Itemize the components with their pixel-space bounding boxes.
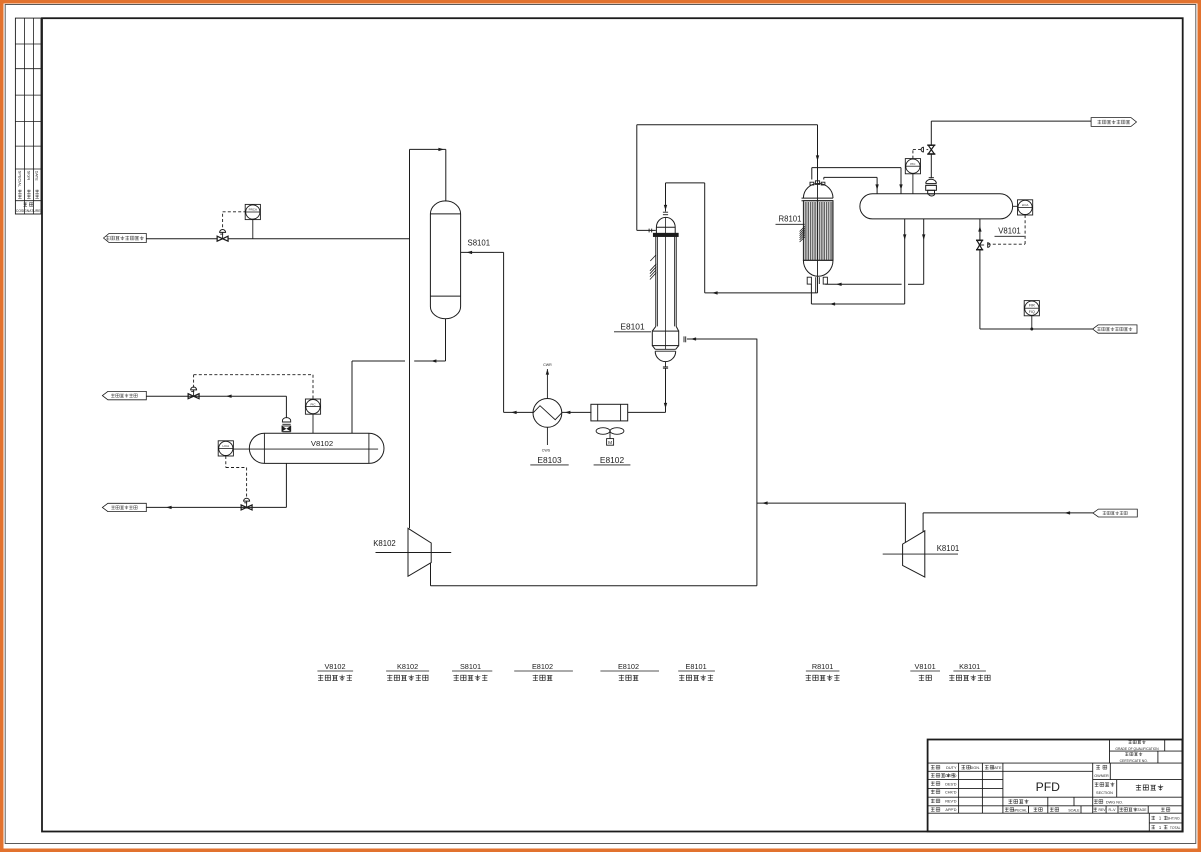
svg-text:E8101: E8101 xyxy=(686,662,707,671)
arrow into S8101 side xyxy=(467,251,473,254)
svg-text:SIGN: SIGN xyxy=(26,171,31,181)
wire: CWR line up xyxy=(546,369,548,399)
instrument PRCA xyxy=(245,204,260,219)
wire: PRCA tap to pipe xyxy=(252,220,254,239)
svg-text:DEP'D: DEP'D xyxy=(945,774,957,778)
R8101 bottom dome xyxy=(803,260,833,276)
specialty / scale row xyxy=(1005,807,1014,811)
wire: effluent to E8101 xyxy=(705,292,818,294)
wire: bottoms line xyxy=(146,506,286,508)
svg-text:SPECIAL: SPECIAL xyxy=(17,171,22,188)
svg-text:SPECIAL: SPECIAL xyxy=(1013,808,1027,812)
E8101 bottom dome xyxy=(655,351,676,361)
svg-text:REV'D: REV'D xyxy=(945,800,957,804)
R8101 top center nozzle xyxy=(815,181,819,185)
E8101 bottom nozzle tick 1 xyxy=(663,366,668,368)
E8101 bottom nozzle tick 2 xyxy=(663,367,668,369)
svg-text:M: M xyxy=(608,440,612,446)
svg-text:DATE: DATE xyxy=(35,171,40,181)
V8101 level instrument LICA xyxy=(1013,205,1018,207)
R8101 bottom center stub xyxy=(815,277,817,293)
wire: E8101 bottom outlet down xyxy=(665,368,667,412)
R8101 top dome xyxy=(803,184,833,199)
svg-text:K8102: K8102 xyxy=(373,539,396,548)
K8102 shaft line xyxy=(376,552,452,554)
col header SIGN xyxy=(26,171,31,181)
signal: LICA to BFW valve xyxy=(1024,215,1026,244)
wire: R8101 effluent down xyxy=(817,277,819,293)
signal: to PRCA (horizontal) xyxy=(223,211,246,213)
motor box M xyxy=(607,439,614,446)
steam valve diaphragm pointer xyxy=(927,149,929,151)
wire: riser A down into V8101 xyxy=(900,168,902,194)
svg-text:DES'D: DES'D xyxy=(945,782,957,786)
cosignature row xyxy=(23,202,33,206)
K8101 shaft line xyxy=(883,553,958,555)
wire: compressor discharge to E8101 shell inlet xyxy=(687,338,757,340)
svg-text:R8101: R8101 xyxy=(812,662,834,671)
wire: hot inlet drop into E8101 top xyxy=(665,183,667,212)
row checked xyxy=(931,790,940,794)
E8101 top dome xyxy=(656,217,675,233)
wire: E8102 to E8103 xyxy=(562,411,592,413)
row discipline chief xyxy=(931,773,955,777)
heat exchanger E8103 (water cooler) xyxy=(533,399,562,428)
wire: riser B down into V8101 xyxy=(876,177,878,193)
wire: S8101 bottoms down xyxy=(445,319,447,361)
wire: riser B from R8101 top-right nozzle xyxy=(823,177,825,179)
svg-text:PFD: PFD xyxy=(1036,780,1061,794)
flow tag: steam to steam header (out) xyxy=(1091,118,1136,127)
E8101 center tube line xyxy=(665,217,667,349)
R8101 flange line 2 xyxy=(802,200,834,202)
E8101 top nozzle flange tick 2 xyxy=(663,214,668,216)
left co-signature table xyxy=(15,18,41,214)
signal: PIC to steam valve xyxy=(913,149,921,151)
svg-text:K8101: K8101 xyxy=(959,662,980,671)
svg-text:LICA: LICA xyxy=(222,444,229,448)
R8101 top nozzle left xyxy=(810,182,814,185)
wire: BFW horizontal xyxy=(980,328,1093,330)
wire: FIR tap xyxy=(1031,316,1033,329)
E8101 bottom collar xyxy=(652,326,678,331)
wire: K8102 discharge down xyxy=(430,563,432,586)
svg-text:PIC: PIC xyxy=(910,162,916,166)
row reviewed xyxy=(931,799,940,803)
BFW level control valve (vertical) xyxy=(976,239,983,241)
svg-text:CWS: CWS xyxy=(542,449,551,453)
svg-text:LICA: LICA xyxy=(1022,203,1029,207)
signal: LICA down xyxy=(225,456,227,468)
wire: pipe valve to recycle riser xyxy=(228,238,410,240)
svg-text:E8103: E8103 xyxy=(537,455,562,465)
svg-text:STAGE: STAGE xyxy=(1135,808,1147,812)
compressor K8101 (fresh gas) xyxy=(903,531,925,577)
rev row xyxy=(1093,807,1097,811)
arrow CWR up xyxy=(546,369,549,375)
svg-text:DUTY: DUTY xyxy=(946,766,957,770)
E8101 upper-left shell nozzle xyxy=(648,229,650,233)
svg-text:SHT.NO.: SHT.NO. xyxy=(1167,817,1180,821)
wire: K8101 discharge to junction xyxy=(757,502,906,504)
svg-text:TOTAL: TOTAL xyxy=(1170,826,1181,830)
wire: riser to reactor feed header xyxy=(636,125,638,231)
svg-text:SECTION: SECTION xyxy=(1096,791,1113,795)
svg-text:COSIGNATURE: COSIGNATURE xyxy=(16,209,41,213)
R8101 bottom nozzle right xyxy=(823,277,827,284)
signal: valve to PIC xyxy=(193,375,195,388)
wire: vertical from E8103 xyxy=(503,252,505,412)
col header SPECIAL xyxy=(17,171,22,188)
wire: K8101 discharge up xyxy=(904,503,906,542)
wire: BFW into V8101 xyxy=(979,219,981,240)
wire: S8101 bottoms horizontal (right of riser gap) xyxy=(414,360,445,362)
svg-text:V8102: V8102 xyxy=(311,439,333,448)
wire: CWS line down xyxy=(546,427,548,445)
steam control valve (vertical) xyxy=(927,144,935,146)
certificate no xyxy=(1125,752,1142,756)
col header DATE xyxy=(35,171,40,181)
svg-text:R–V: R–V xyxy=(1109,808,1117,812)
wire: BFW riser xyxy=(979,250,981,329)
svg-text:REV: REV xyxy=(1099,808,1107,812)
wire: PIC tap to vessel xyxy=(912,174,914,194)
title block xyxy=(928,740,1183,832)
svg-text:CHK'D: CHK'D xyxy=(945,791,957,795)
R8101 bottom nozzle left xyxy=(807,277,811,284)
wire: steam line to grid tag xyxy=(930,121,932,145)
sheet no rows xyxy=(1151,816,1155,820)
flow tag: purge gas to fuel header xyxy=(104,234,147,243)
wire: S8101 bottoms horizontal (left of riser gap) xyxy=(352,360,405,362)
svg-text:DATE: DATE xyxy=(992,766,1002,770)
wire: V8102 bottom outlet xyxy=(285,463,287,507)
svg-text:GRADE OF QUALIFICATION: GRADE OF QUALIFICATION xyxy=(1115,747,1159,751)
svg-text:DWG NO.: DWG NO. xyxy=(1106,800,1123,804)
svg-text:V8102: V8102 xyxy=(324,662,345,671)
wire: reactor feed top header xyxy=(637,124,818,126)
arrow down into R8101 xyxy=(816,155,819,161)
svg-text:CWR: CWR xyxy=(543,363,552,367)
arrow riser A into V8101 xyxy=(899,184,902,190)
svg-text:CERTIFICATE NO.: CERTIFICATE NO. xyxy=(1120,759,1148,763)
project name value xyxy=(1136,785,1163,791)
wire: E8103 to riser corner xyxy=(504,411,533,413)
signal: valve to PRCA (vertical) xyxy=(222,212,224,227)
arrow effluent leftward xyxy=(712,291,718,294)
E8101 insulation hatch xyxy=(650,255,656,261)
wire: E8103 outlet into S8101 xyxy=(461,251,504,253)
E8103 coil zigzag xyxy=(533,406,562,420)
R8101 top nozzle right xyxy=(821,182,825,185)
wire: flash gas line xyxy=(146,395,286,397)
wire: riser A horizontal xyxy=(812,167,901,169)
wire: feed pipe from tag to valve PV-A xyxy=(146,238,217,240)
arrow riser B into V8101 xyxy=(875,184,878,190)
flow tag: fresh gas from battery limit xyxy=(1093,509,1137,517)
wire: fresh gas line xyxy=(923,512,1093,514)
arrow at E8103 outlet xyxy=(511,411,517,414)
E8101 top flange band xyxy=(653,233,678,236)
svg-text:E8102: E8102 xyxy=(618,662,639,671)
svg-text:PIC: PIC xyxy=(310,402,316,406)
arrow into E8101 shell xyxy=(691,337,697,340)
compressor K8102 (recycle gas) xyxy=(408,528,431,576)
E8101 shell body xyxy=(655,237,657,327)
wire: drop into K8101 inlet xyxy=(922,513,924,532)
arrow discharge leftward xyxy=(762,501,768,504)
svg-text:R8101: R8101 xyxy=(779,215,802,224)
wire: effluent top jog to E8101 xyxy=(666,182,705,184)
arrow fresh gas leftward xyxy=(1065,511,1071,514)
svg-text:S8101: S8101 xyxy=(468,238,491,247)
svg-text:E8101: E8101 xyxy=(620,321,645,331)
svg-text:E8102: E8102 xyxy=(532,662,553,671)
vessel S8101 (methanol separator) xyxy=(430,201,460,319)
E8101 lower-right shell nozzle xyxy=(683,336,685,342)
svg-text:V8101: V8101 xyxy=(915,662,936,671)
V8102 vent/relief fitting xyxy=(282,418,290,422)
wire: riser A from R8101 top-left nozzle xyxy=(811,168,813,180)
wire: K8102 discharge long horizontal xyxy=(431,585,757,587)
svg-text:K8102: K8102 xyxy=(397,662,418,671)
instrument LICA on V8102 xyxy=(218,441,233,456)
PV on flash gas line xyxy=(188,394,199,399)
air cooler E8102 xyxy=(591,404,628,421)
LV on bottoms line xyxy=(241,505,252,510)
wire: down to vent valve on V8102 xyxy=(285,396,287,418)
flow tag: BFW from battery limit xyxy=(1093,325,1137,333)
wire: effluent up xyxy=(704,183,706,293)
wire: recycle gas riser to K8102 suction xyxy=(409,149,411,528)
downcomer A: V8101 to R8101 bottom-left nozzle xyxy=(904,219,906,304)
E8101 top nozzle flange tick 1 xyxy=(663,211,668,213)
svg-text:FIQ: FIQ xyxy=(1029,310,1035,314)
wire: E8101 bottom outlet to E8102 xyxy=(628,411,666,413)
design manager cell xyxy=(1008,799,1028,803)
vessel V8101 (steam drum) xyxy=(860,194,1013,219)
svg-text:SCALE: SCALE xyxy=(1068,808,1080,812)
signal: to bottoms valve xyxy=(246,468,248,498)
flow tag: crude methanol to distillation xyxy=(102,503,146,511)
svg-text:S8101: S8101 xyxy=(460,662,481,671)
R8101 tube stripes xyxy=(804,202,833,260)
V8102 center line + LICA stub xyxy=(233,448,378,450)
downcomer B: V8101 to R8101 bottom-right nozzle xyxy=(923,219,925,284)
arrow down to E8102 xyxy=(664,403,667,409)
svg-text:OWNER: OWNER xyxy=(1094,774,1109,778)
wire: riser B horizontal xyxy=(824,176,877,178)
V8102 pressure instrument PIC xyxy=(305,399,320,414)
wire: combined discharge riser to E8101 xyxy=(756,339,758,586)
owner cell xyxy=(1096,765,1107,769)
svg-text:FIR: FIR xyxy=(1029,304,1035,308)
svg-text:E8102: E8102 xyxy=(600,455,625,465)
arrow bottoms leftward xyxy=(431,359,437,362)
R8101 shell xyxy=(803,201,833,261)
wire: bottoms down into V8102 xyxy=(351,361,353,433)
V8101 pressure instrument PIC xyxy=(905,159,920,174)
flow tag: flash gas to battery limit xyxy=(102,391,146,399)
arrow down into E8101 xyxy=(664,205,667,211)
R8101 insulation hatch xyxy=(800,226,805,242)
svg-text:K8101: K8101 xyxy=(937,544,960,553)
reactor R8101 feed drop xyxy=(817,125,819,183)
instrument FIR/FIQ on BFW xyxy=(1024,301,1039,316)
row approved xyxy=(931,807,940,811)
vessel V8102 (methanol flash drum) xyxy=(249,433,384,463)
svg-text:PRCA: PRCA xyxy=(249,208,257,212)
control valve on purge line xyxy=(217,236,228,241)
grade of qualification xyxy=(1128,740,1145,744)
arrow on pipe E8102->E8103 xyxy=(565,411,571,414)
R8101 flange line 1 xyxy=(802,197,834,199)
arrow bottoms leftward xyxy=(166,506,172,509)
wire: E8101 shell outlet to riser xyxy=(637,229,656,231)
row designed xyxy=(931,781,940,785)
wire: steam line up to PV xyxy=(930,154,932,178)
svg-text:V8101: V8101 xyxy=(998,227,1021,236)
svg-text:SIGN.: SIGN. xyxy=(970,766,980,770)
steam bottle on V8101 xyxy=(929,177,934,179)
E8102 fan blades xyxy=(596,428,610,435)
arrow flash gas leftward xyxy=(226,395,232,398)
arrow BFW up into drum xyxy=(978,226,981,232)
wire: down to S8101 top xyxy=(445,149,447,201)
section name cell xyxy=(1095,782,1115,786)
arrow right into S8101 overhead corner xyxy=(438,148,444,151)
wire: PIC tap to vessel xyxy=(312,414,314,433)
wire: S8101 overhead to riser xyxy=(410,148,446,150)
dwg no row xyxy=(1094,799,1103,803)
svg-text:APP'D: APP'D xyxy=(945,808,956,812)
R8101 center tube xyxy=(817,183,819,277)
sign/date headers xyxy=(961,765,970,769)
row duty xyxy=(931,765,940,769)
signal: PIC up xyxy=(912,150,914,159)
